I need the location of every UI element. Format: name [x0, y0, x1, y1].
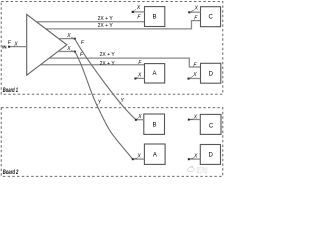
op-amp buffer triangle: [27, 14, 67, 75]
board 1 dashed outline: [1, 1, 223, 94]
tap node dot 2: [74, 51, 76, 53]
box A stub wire: [135, 77, 144, 79]
wire 2X+Y line 2 to C: [46, 21, 201, 29]
box C node dot: [188, 11, 190, 13]
tap node dot 1: [74, 38, 76, 40]
svg-text:C: C: [209, 14, 214, 20]
board 2 box A stub wire: [133, 158, 145, 160]
svg-text:X: X: [137, 114, 142, 120]
svg-text:Board 2: Board 2: [3, 170, 19, 177]
watermark logo: [187, 166, 207, 175]
svg-text:B: B: [152, 15, 156, 21]
board 2 box C: [200, 114, 221, 134]
board 2 box D: [200, 145, 220, 165]
board 1 box B: [145, 7, 165, 27]
svg-text:2X + Y: 2X + Y: [100, 52, 116, 58]
tap stub 1 at amp tip: [58, 38, 74, 40]
board 2 box A node dot: [132, 158, 134, 160]
svg-text:D: D: [209, 153, 214, 159]
box D node dot: [188, 78, 190, 80]
svg-text:X: X: [136, 5, 141, 11]
board 1 box A: [145, 64, 165, 83]
svg-text:电子干货: 电子干货: [196, 169, 207, 174]
input node dot: [8, 46, 10, 48]
board 2 box B stub wire: [136, 119, 144, 121]
board 2 box A: [144, 144, 165, 164]
net curve 2 to board 2 box A: [75, 52, 133, 160]
svg-text:X: X: [66, 46, 71, 52]
svg-text:IN: IN: [2, 44, 6, 49]
svg-text:X: X: [137, 154, 142, 160]
svg-text:B: B: [152, 123, 156, 129]
svg-text:C: C: [209, 124, 214, 130]
box D stub wire: [188, 78, 200, 80]
wire 2X+Y line 1 to B: [36, 21, 144, 23]
board 1 box D: [201, 63, 221, 83]
svg-text:X: X: [66, 33, 71, 39]
board 2 box D stub wire: [189, 158, 201, 160]
board 2 box D node dot: [188, 158, 190, 160]
svg-text:2X + Y: 2X + Y: [100, 61, 116, 67]
wire 2X+Y line 4 to A: [40, 64, 144, 66]
board 2 box B node dot: [135, 119, 137, 121]
box B node dot: [132, 11, 134, 13]
svg-text:Board 1: Board 1: [3, 87, 18, 94]
svg-text:A: A: [153, 153, 157, 159]
tap stub 2 at amp tip: [58, 51, 75, 53]
box C stub wire: [189, 11, 200, 13]
svg-text:X: X: [192, 72, 197, 78]
input wire: [9, 46, 27, 48]
svg-text:X: X: [137, 73, 142, 79]
wire 2X+Y line 3 to D: [49, 58, 200, 67]
svg-text:A: A: [152, 71, 156, 77]
svg-text:X: X: [193, 153, 198, 159]
svg-text:2X + Y: 2X + Y: [98, 23, 114, 29]
svg-text:2X + Y: 2X + Y: [98, 16, 114, 22]
box A node dot: [134, 78, 136, 80]
svg-text:X: X: [193, 115, 198, 121]
board 1 box C: [201, 7, 221, 27]
board 2 box C stub wire: [189, 119, 201, 121]
svg-text:X: X: [194, 5, 199, 11]
net curve 1 to board 2 box B: [75, 39, 136, 120]
board 2 box C node dot: [188, 119, 190, 121]
box B stub wire: [132, 11, 144, 13]
svg-text:D: D: [209, 72, 214, 78]
board 2 box B: [144, 114, 165, 134]
board 2 dashed outline: [1, 108, 223, 177]
